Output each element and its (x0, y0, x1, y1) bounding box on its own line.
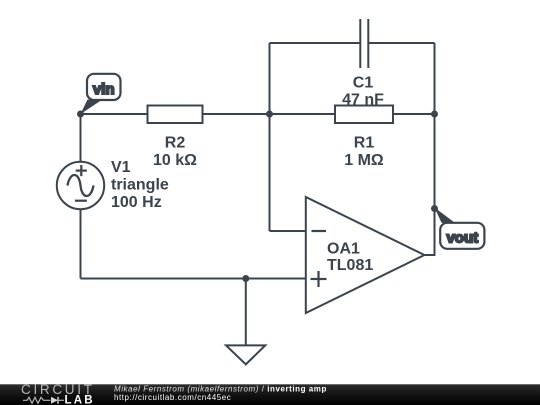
svg-text:OA1: OA1 (327, 240, 360, 257)
op-amp OA1 (306, 197, 425, 313)
svg-text:triangle: triangle (111, 177, 169, 194)
wire (81, 113, 148, 115)
voltage source V1 (57, 162, 104, 209)
svg-text:C1: C1 (353, 75, 374, 92)
wire (203, 113, 270, 115)
wire (246, 278, 306, 280)
node A junction (266, 111, 273, 118)
svg-text:V1: V1 (111, 159, 131, 176)
svg-text:TL081: TL081 (327, 257, 373, 274)
resistor R1 (335, 106, 393, 124)
svg-text:LAB: LAB (65, 394, 95, 405)
node vout junction (431, 205, 438, 212)
wire (269, 114, 271, 231)
wire (434, 114, 436, 209)
svg-text:R2: R2 (165, 135, 186, 152)
node B junction (431, 111, 438, 118)
svg-text:10 kΩ: 10 kΩ (153, 152, 197, 169)
wire (270, 230, 306, 232)
node ground junction (242, 275, 249, 282)
svg-text:vout: vout (446, 230, 478, 247)
wire (270, 42, 361, 44)
net flag vin (81, 74, 121, 114)
svg-text:http://circuitlab.com/cn445ec: http://circuitlab.com/cn445ec (114, 393, 231, 402)
svg-text:47 nF: 47 nF (342, 92, 384, 109)
CircuitLab logo (21, 382, 95, 405)
svg-text:100 Hz: 100 Hz (111, 194, 162, 211)
resistor R2 (148, 106, 203, 124)
wire (434, 43, 436, 114)
capacitor C1 (360, 19, 368, 68)
wire (81, 278, 246, 280)
svg-text:1 MΩ: 1 MΩ (344, 152, 384, 169)
svg-text:Mikael Fernstrom (mikaelfernst: Mikael Fernstrom (mikaelfernstrom) / inv… (114, 384, 327, 393)
node vin junction (77, 111, 84, 118)
wire (80, 114, 82, 162)
wire (424, 209, 434, 256)
wire (368, 42, 434, 44)
net flag vout (435, 208, 485, 249)
wire (80, 209, 82, 279)
ground (226, 345, 265, 364)
wire (269, 43, 271, 114)
wire (393, 113, 435, 115)
wire (270, 113, 336, 115)
wire (245, 279, 247, 346)
svg-text:R1: R1 (354, 135, 375, 152)
svg-text:vin: vin (93, 81, 115, 98)
footer bar (0, 384, 540, 405)
